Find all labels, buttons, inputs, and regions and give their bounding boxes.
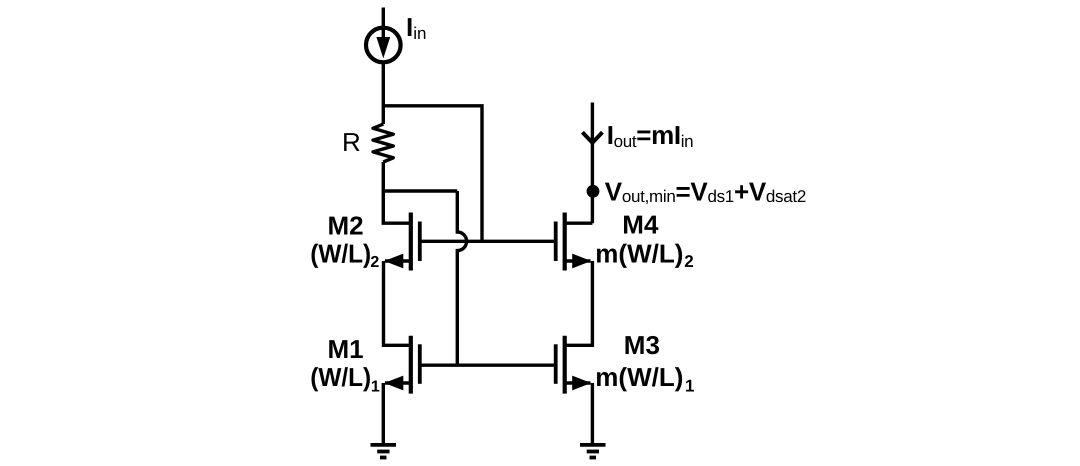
svg-text:1: 1 [371,378,380,395]
gate bus M1/M3 [420,364,556,367]
ground right [580,445,606,458]
wire current source to resistor [382,63,385,124]
transistor M1 [384,336,420,394]
transistor M3 [556,336,592,394]
svg-text:M1: M1 [328,334,364,364]
svg-text:2: 2 [684,252,693,271]
svg-text:1: 1 [685,376,694,395]
output wire stub [591,103,594,224]
svg-text:(W/L): (W/L) [310,362,371,392]
svg-text:M3: M3 [624,330,660,360]
svg-text:2: 2 [370,254,379,271]
svg-text:Iin: Iin [406,12,426,43]
svg-text:M4: M4 [622,210,659,240]
node B bus with hop over gate line [383,191,466,365]
wire resistor to M2 drain [383,162,409,223]
wire M3 source to ground [591,383,594,446]
wire M4 source to M3 drain [565,261,593,345]
arrow Iout [582,132,602,142]
current source Iin [366,28,401,63]
ground left [371,445,397,458]
svg-text:(W/L): (W/L) [310,238,371,268]
svg-text:M2: M2 [328,211,364,241]
svg-text:m(W/L): m(W/L) [595,238,683,268]
svg-text:Vout,min=Vds1+Vdsat2: Vout,min=Vds1+Vdsat2 [605,176,806,206]
transistor M4 [556,213,593,271]
node Vout dot [587,185,600,198]
gate line M2/M4 [420,240,556,243]
resistor R [373,124,393,162]
svg-text:R: R [342,127,361,157]
transistor M2 [384,213,420,271]
wire M1 source to ground [382,383,385,446]
svg-text:Iout=mIin: Iout=mIin [607,120,694,151]
wire input feed stub [382,8,385,28]
svg-text:m(W/L): m(W/L) [595,362,683,392]
node A bus: top node to M2/M4 gate column [383,106,482,242]
wire M2 source to M1 drain [384,261,410,345]
